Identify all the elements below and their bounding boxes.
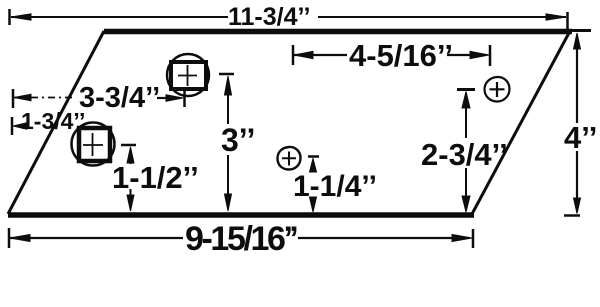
hole H4 circle (right small hole) [485,77,510,102]
dim 4-5/16 line [294,54,473,56]
dim 9-15/16 right arrow [452,235,472,242]
dim 4-5/16 left tick [292,45,295,65]
hole H2 circle (left square hole) [72,123,115,166]
svg-text:3-3/4’’: 3-3/4’’ [79,82,160,114]
dim 3-3/4 right arrow [166,95,183,102]
hole H4 center cross [490,82,505,97]
dim 4in up arrow [574,33,581,49]
plate right slanted edge [472,31,570,214]
svg-text:1-1/4’’: 1-1/4’’ [293,170,377,203]
dim 1-1/4 down arrow [310,197,317,212]
dim 1-1/4 top tick [308,155,319,158]
dim 1-1/4 up arrow [310,159,317,173]
dim 3-3/4 right leader line [157,97,170,99]
dim 11-3/4 left arrow [11,14,31,20]
dim 9-15/16 left tick [8,228,11,248]
dim 11-3/4 left tick [8,9,11,25]
dim 1-1/2 up arrow [127,147,134,163]
dim 3in down arrow [225,194,232,211]
dim 3-3/4 left tick [12,89,15,108]
dim 4-5/16 right tick [489,45,492,66]
svg-text:4’’: 4’’ [564,120,597,155]
dim 2-3/4 top tick [457,88,475,91]
svg-text:11-3/4’’: 11-3/4’’ [228,3,310,31]
svg-text:2-3/4’’: 2-3/4’’ [421,137,508,172]
dim 4in down arrow [574,198,581,214]
dim 11-3/4 line [11,16,566,18]
dim 4in line [576,45,578,201]
dim 2-3/4 up arrow [462,92,470,109]
svg-text:4-5/16’’: 4-5/16’’ [349,38,453,73]
hole H3 center cross [282,152,296,166]
dim 3in up arrow [225,76,232,95]
dim 9-15/16 line [10,237,457,239]
dim 4in bottom tick [564,214,580,217]
plate left slanted edge [8,31,104,214]
dim 1-1/2 line [130,156,132,199]
plate top edge [104,29,572,35]
dim 1-1/4 line [312,166,314,200]
dim 3-3/4 dashed leader line [14,97,75,99]
svg-text:3’’: 3’’ [221,122,255,158]
dim 1-1/2 down arrow [127,195,134,211]
dim 9-15/16 right tick [472,229,475,248]
dim 3in line [227,86,229,199]
dim 1-3/4 left tick [11,117,14,135]
dim 3in top tick [219,73,234,76]
hole H2 square outline [79,128,110,161]
hole H1 center cross [178,65,197,86]
plate bottom edge [8,212,474,218]
svg-text:1-3/4’’: 1-3/4’’ [21,108,85,134]
hole H3 circle (middle small hole) [278,147,301,170]
hole H2 center cross [83,133,103,156]
dim 4-5/16 left arrow [294,51,313,58]
dim 3-3/4 right tick (below hole H1) [183,90,186,107]
dim 9-15/16 left arrow [10,235,30,242]
dim 11-3/4 right tick [566,12,569,30]
top edge extension line (right) [572,29,591,32]
hole H1 circle (top square hole) [167,54,209,96]
dim 2-3/4 line [465,101,467,199]
dim 1-1/2 top tick [121,144,136,147]
svg-text:9-15/16’’: 9-15/16’’ [185,220,297,258]
dim 3-3/4 left arrow [14,94,31,101]
hole H1 square outline [171,62,206,89]
dim 11-3/4 right arrow [546,14,566,20]
dim 4-5/16 right arrow [470,51,489,58]
svg-text:1-1/2’’: 1-1/2’’ [112,160,199,195]
dim 1-3/4 left arrow [13,123,27,129]
dim 2-3/4 down arrow [462,196,470,212]
